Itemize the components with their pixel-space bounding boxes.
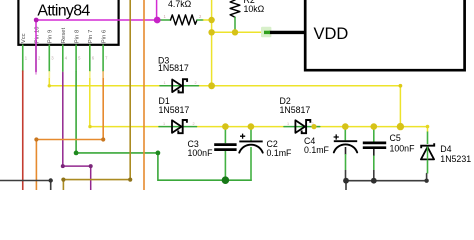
svg-text:1: 1 <box>287 122 289 126</box>
svg-text:100nF: 100nF <box>390 144 416 154</box>
svg-text:Pin 10: Pin 10 <box>34 26 40 43</box>
svg-text:Vcc: Vcc <box>21 33 27 43</box>
svg-text:Pin 9: Pin 9 <box>48 30 54 43</box>
svg-text:1N5817: 1N5817 <box>280 105 311 115</box>
svg-text:0.1mF: 0.1mF <box>267 148 293 158</box>
svg-text:Reset: Reset <box>61 27 67 43</box>
svg-text:2: 2 <box>195 81 197 85</box>
svg-text:1N5817: 1N5817 <box>158 63 189 73</box>
svg-text:2: 2 <box>193 122 195 126</box>
svg-text:Pin 8: Pin 8 <box>74 29 80 43</box>
svg-text:C5: C5 <box>390 133 401 143</box>
svg-text:1N5817: 1N5817 <box>159 105 190 115</box>
svg-text:1N5231: 1N5231 <box>440 154 471 164</box>
svg-text:100nF: 100nF <box>188 148 214 158</box>
svg-text:4.7kΩ: 4.7kΩ <box>168 0 192 9</box>
svg-text:Pin 6: Pin 6 <box>101 29 107 43</box>
svg-text:10kΩ: 10kΩ <box>244 4 265 14</box>
svg-text:Pin 7: Pin 7 <box>88 30 94 43</box>
svg-text:0.1mF: 0.1mF <box>304 145 330 155</box>
svg-text:1: 1 <box>164 81 166 85</box>
svg-text:Attiny84: Attiny84 <box>37 2 90 19</box>
svg-text:1: 1 <box>163 122 165 126</box>
svg-text:VDD: VDD <box>314 25 349 43</box>
svg-text:D4: D4 <box>440 144 451 154</box>
